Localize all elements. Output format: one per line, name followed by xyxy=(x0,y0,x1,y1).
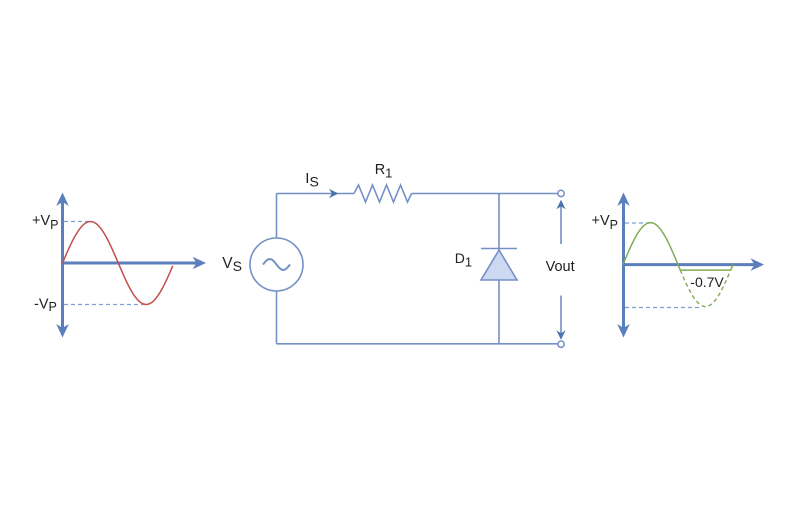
wire top rail left segment xyxy=(277,193,355,195)
source Vs circle xyxy=(250,238,303,291)
dashed level -Vp (output) xyxy=(625,307,702,309)
wire top rail right segment xyxy=(412,193,558,195)
Vout arrow down xyxy=(556,296,565,340)
svg-text:Vout: Vout xyxy=(546,259,575,275)
terminal top right xyxy=(558,190,564,196)
wire source top to top rail xyxy=(276,194,278,239)
axis horizontal (output graph) xyxy=(622,258,764,271)
svg-text:IS: IS xyxy=(305,170,319,189)
svg-text:+VP: +VP xyxy=(592,213,618,232)
svg-text:-VP: -VP xyxy=(34,297,57,315)
axis vertical (input graph) xyxy=(56,193,69,338)
svg-text:-0.7V: -0.7V xyxy=(690,274,724,290)
diode D1 cathode bar xyxy=(481,248,517,250)
wire diode branch xyxy=(498,194,500,344)
input sine wave xyxy=(63,222,173,305)
resistor R1 xyxy=(354,185,412,202)
svg-text:D1: D1 xyxy=(455,250,472,270)
dashed level +Vp (input) xyxy=(64,221,89,223)
svg-text:VS: VS xyxy=(222,255,242,274)
axis horizontal (input graph) xyxy=(61,257,206,270)
wire source bottom to bottom rail xyxy=(276,291,278,344)
wire bottom rail xyxy=(277,343,558,345)
clipped sine dashed (output) xyxy=(680,270,730,307)
source sine symbol xyxy=(263,259,290,270)
output clipped level -0.7V xyxy=(680,269,730,271)
diode D1 triangle xyxy=(481,250,517,280)
Vout arrow up xyxy=(556,200,565,244)
dashed level +Vp (output) xyxy=(625,222,650,224)
svg-text:R1: R1 xyxy=(375,162,393,180)
terminal bottom right xyxy=(558,341,564,347)
dashed level -Vp (input) xyxy=(64,304,146,306)
output wave positive half xyxy=(623,223,680,271)
output wave tail xyxy=(731,265,733,271)
svg-text:+VP: +VP xyxy=(32,213,58,232)
current arrow Is xyxy=(329,189,339,198)
axis vertical (output graph) xyxy=(617,193,630,338)
